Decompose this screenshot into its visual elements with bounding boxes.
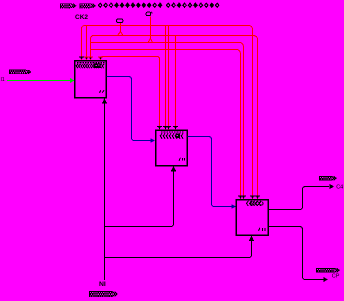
- svg-text:CP: CP: [332, 274, 340, 280]
- svg-text:I1: I1: [1, 77, 5, 83]
- svg-text:CK2: CK2: [75, 14, 88, 21]
- svg-text:C4: C4: [336, 184, 343, 190]
- svg-text:NI: NI: [99, 281, 106, 288]
